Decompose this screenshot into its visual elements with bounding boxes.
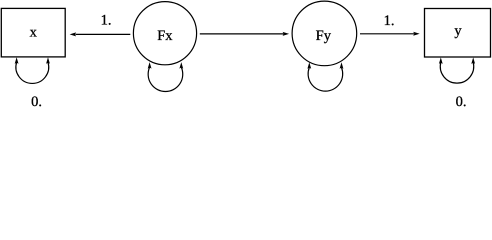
svg-text:x: x: [30, 24, 38, 40]
svg-text:Fx: Fx: [157, 28, 173, 44]
svg-text:y: y: [454, 23, 462, 39]
svg-text:0.: 0.: [456, 94, 467, 109]
svg-text:0.: 0.: [31, 94, 42, 109]
svg-text:1.: 1.: [384, 13, 395, 29]
svg-text:1.: 1.: [101, 13, 112, 29]
svg-text:Fy: Fy: [316, 28, 332, 44]
